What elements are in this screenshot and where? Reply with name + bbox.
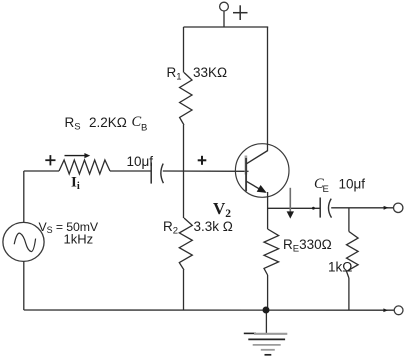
svg-text:R2: R2 [163,219,178,237]
svg-text:1kΩ: 1kΩ [328,260,352,275]
svg-text:Ii: Ii [71,175,80,193]
svg-text:C: C [132,114,142,130]
svg-text:1kHz: 1kHz [64,232,94,247]
svg-text:RE330Ω: RE330Ω [283,237,332,255]
svg-text:2.2KΩ: 2.2KΩ [89,115,127,130]
svg-text:V2: V2 [213,199,231,220]
svg-text:33KΩ: 33KΩ [193,65,227,80]
svg-text:B: B [141,123,147,134]
svg-text:3.3k Ω: 3.3k Ω [194,219,233,234]
svg-text:10μf: 10μf [127,154,154,169]
svg-text:10μf: 10μf [339,177,366,192]
svg-text:E: E [323,184,329,195]
svg-text:R1: R1 [167,65,182,83]
svg-text:RS: RS [65,115,81,133]
